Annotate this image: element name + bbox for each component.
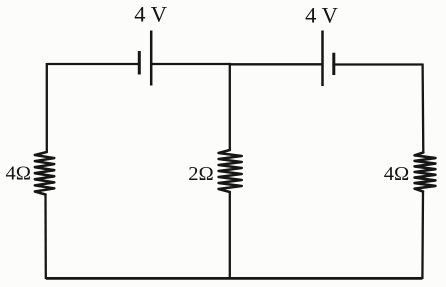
wire middle branch upper: node A down to R2 bbox=[229, 64, 231, 150]
wire top-middle-right: node A to B2 positive plate bbox=[230, 63, 323, 65]
wire bottom: bottom-left corner to bottom-right corner bbox=[46, 277, 423, 280]
svg-text:4Ω: 4Ω bbox=[6, 162, 32, 184]
battery B2 negative (short) plate bbox=[332, 53, 335, 75]
resistor R1 zigzag body bbox=[35, 152, 54, 195]
wire top-middle-left: B1 positive plate to node A bbox=[151, 63, 230, 65]
wire right side lower: R3 to bottom-right corner bbox=[421, 192, 424, 280]
resistor R2 zigzag body bbox=[219, 150, 242, 192]
wire right side upper: top-right corner down to R3 bbox=[421, 64, 424, 153]
node B: bottom middle junction bbox=[229, 277, 231, 279]
node A: top middle junction bbox=[229, 63, 231, 65]
battery B1 negative (short) plate bbox=[138, 51, 141, 75]
resistor R3 zigzag body bbox=[415, 153, 436, 192]
battery B1 positive (long) plate bbox=[150, 31, 153, 86]
svg-text:4Ω: 4Ω bbox=[384, 163, 410, 185]
wire left side lower: R1 to bottom-left corner bbox=[44, 195, 47, 280]
svg-text:4 V: 4 V bbox=[305, 2, 338, 27]
svg-text:4 V: 4 V bbox=[134, 1, 167, 26]
battery B2 positive (long) plate bbox=[321, 31, 324, 87]
wire top-left: top-left corner to B1 negative plate bbox=[47, 63, 138, 65]
wire top-right: B2 negative plate to top-right corner bbox=[334, 63, 423, 65]
wire middle branch lower: R2 to node B bbox=[229, 192, 231, 278]
svg-text:2Ω: 2Ω bbox=[188, 163, 214, 185]
wire left side upper: top-left corner down to R1 bbox=[46, 63, 48, 152]
